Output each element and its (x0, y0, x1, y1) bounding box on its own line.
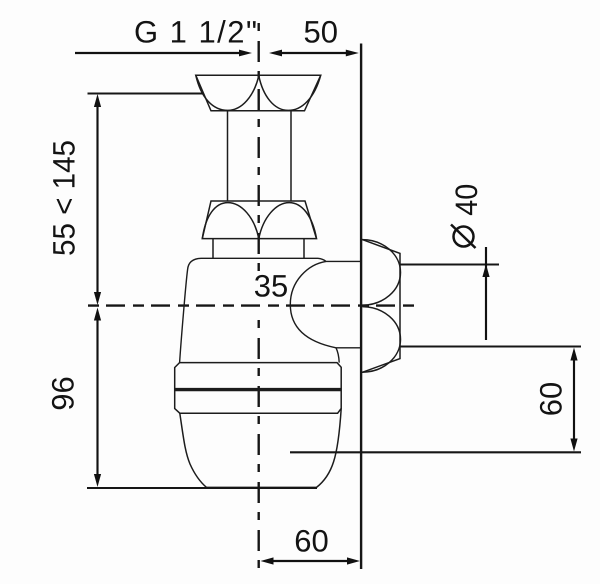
dimension G 1 1/2 line (75, 50, 252, 57)
svg-text:G 1 1/2": G 1 1/2" (134, 15, 257, 50)
extension line cup bottom (87, 487, 317, 489)
extension line lower right (290, 451, 581, 453)
dimension 96 line (94, 308, 101, 488)
svg-text:96: 96 (46, 376, 81, 410)
svg-text:35: 35 (254, 269, 288, 304)
svg-text:55 < 145: 55 < 145 (47, 140, 82, 256)
bottom cup (180, 409, 341, 488)
outlet elbow pipe (290, 258, 361, 348)
svg-text:60: 60 (534, 382, 569, 416)
wall flange outline (362, 239, 400, 372)
wall flange lower dome (362, 307, 401, 373)
washer collar (213, 239, 304, 258)
dimension 50 line (269, 50, 359, 57)
dimension bottom 60 line (261, 557, 361, 564)
nut N1 top (sink coupling nut) (196, 75, 321, 111)
extension line flange bottom right (401, 345, 582, 347)
wall flange upper dome (362, 240, 401, 306)
extension line nut top left (88, 92, 204, 94)
union ring band (175, 363, 342, 414)
extension line pipe top right (401, 263, 500, 265)
centerline vertical axis (258, 23, 260, 572)
svg-text:40: 40 (449, 184, 484, 216)
svg-text:60: 60 (294, 524, 328, 559)
inlet tube (228, 111, 292, 201)
centerline horizontal outlet axis (88, 304, 421, 306)
nut N2 middle (body coupling nut) (202, 201, 316, 239)
wall line (360, 44, 362, 570)
trap body upper shell (180, 258, 340, 362)
diameter symbol for D40 (451, 225, 476, 249)
dimension 55<145 line (94, 94, 101, 305)
dimension D40 leader (482, 247, 489, 340)
dimension right 60 line (570, 348, 577, 452)
svg-text:50: 50 (303, 15, 337, 50)
